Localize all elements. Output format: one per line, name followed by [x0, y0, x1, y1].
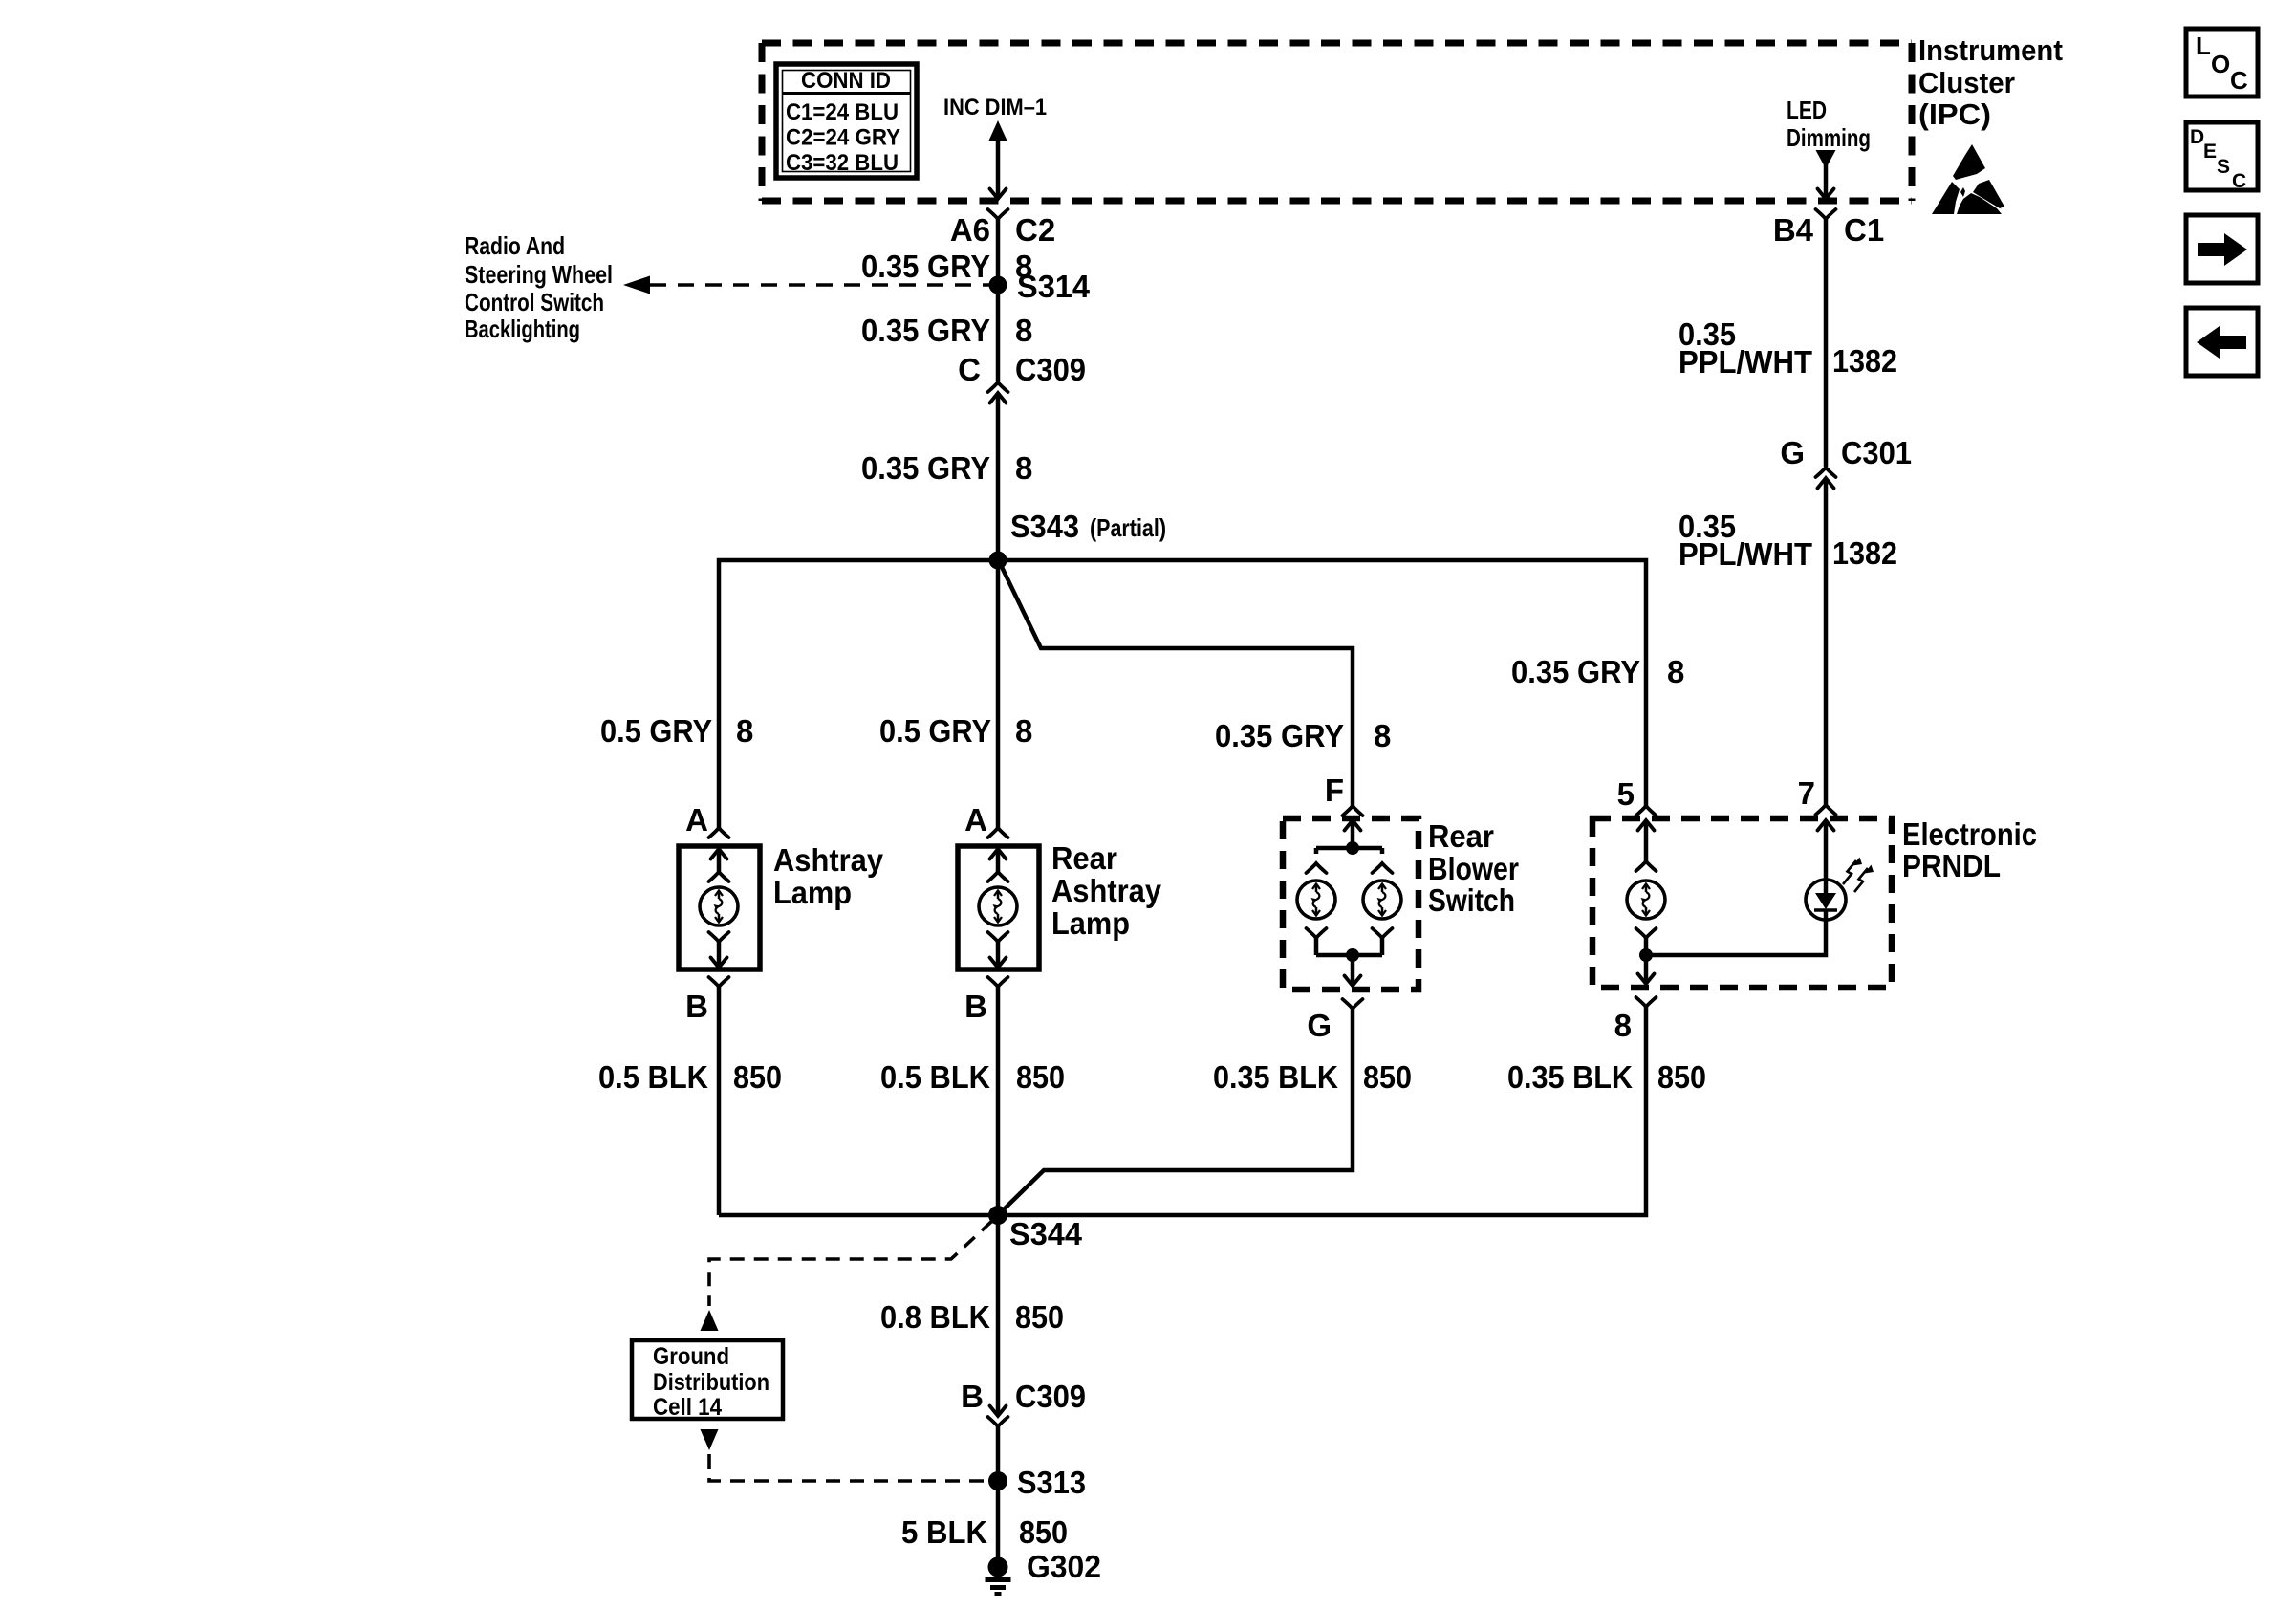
svg-text:PPL/WHT: PPL/WHT	[1679, 344, 1812, 380]
svg-text:850: 850	[1019, 1514, 1068, 1550]
svg-text:0.5 BLK: 0.5 BLK	[880, 1059, 990, 1095]
svg-text:L: L	[2196, 32, 2211, 60]
svg-text:C1=24 BLU: C1=24 BLU	[786, 99, 899, 125]
svg-text:C309: C309	[1015, 352, 1086, 387]
wire S313 down to G302	[996, 1481, 1001, 1568]
svg-text:Lamp: Lamp	[1051, 905, 1130, 941]
svg-text:1382: 1382	[1832, 535, 1897, 571]
pin F arrow inside	[1345, 820, 1361, 831]
svg-text:Lamp: Lamp	[773, 875, 852, 910]
svg-text:0.5 GRY: 0.5 GRY	[879, 713, 991, 749]
svg-text:850: 850	[1016, 1059, 1065, 1095]
svg-text:S: S	[2217, 156, 2230, 178]
svg-text:C3=32 BLU: C3=32 BLU	[786, 150, 899, 176]
svg-text:E: E	[2203, 141, 2217, 163]
LED light rays	[1843, 860, 1868, 892]
svg-text:Distribution: Distribution	[653, 1369, 769, 1396]
svg-text:Ashtray: Ashtray	[773, 842, 884, 878]
solid up triangle	[701, 1310, 719, 1331]
svg-text:B: B	[961, 1379, 984, 1414]
svg-text:F: F	[1325, 772, 1344, 808]
svg-text:(IPC): (IPC)	[1918, 98, 1991, 131]
wire down to S313	[996, 1426, 1001, 1481]
svg-text:850: 850	[733, 1059, 782, 1095]
svg-text:Electronic: Electronic	[1902, 816, 2037, 852]
svg-text:Dimming: Dimming	[1787, 123, 1871, 152]
dashed wire to radio backlighting	[650, 283, 994, 287]
svg-text:A: A	[964, 802, 987, 838]
wire S344 down to C309	[996, 1215, 1001, 1414]
svg-text:Rear: Rear	[1428, 818, 1494, 854]
svg-text:Control Switch: Control Switch	[465, 288, 604, 316]
wire: S343 right branch to PRNDL pin 5	[998, 560, 1646, 806]
svg-text:8: 8	[1667, 654, 1684, 689]
Rear Ashtray Lamp bulb	[979, 887, 1017, 925]
svg-text:8: 8	[1374, 718, 1391, 753]
svg-text:PRNDL: PRNDL	[1902, 848, 2001, 883]
wire ashtray B to S344	[719, 1213, 998, 1218]
right bulb of switch	[1373, 863, 1393, 873]
wire stub with solid up arrow into IPC	[996, 136, 1001, 196]
svg-text:D: D	[2190, 126, 2204, 148]
connector chevron at IPC edge	[988, 209, 1008, 219]
inline connector C309 bottom	[990, 1406, 1007, 1417]
pin 5 arrow inside	[1638, 820, 1655, 831]
svg-text:Cluster: Cluster	[1918, 66, 2015, 99]
svg-text:A: A	[685, 802, 708, 838]
svg-text:Instrument: Instrument	[1918, 33, 2063, 67]
svg-text:(Partial): (Partial)	[1090, 513, 1166, 542]
pin G chevron below	[1343, 999, 1363, 1009]
DESC button	[2186, 122, 2258, 192]
svg-text:8: 8	[1015, 450, 1032, 486]
svg-text:8: 8	[736, 713, 753, 749]
svg-text:0.35 GRY: 0.35 GRY	[861, 450, 990, 486]
svg-text:C2: C2	[1015, 212, 1055, 248]
svg-text:0.35 GRY: 0.35 GRY	[1511, 654, 1640, 689]
svg-text:0.8 BLK: 0.8 BLK	[880, 1299, 990, 1335]
wire stub with solid down arrow	[1816, 150, 1836, 169]
junction dot	[1639, 948, 1653, 962]
svg-text:Cell 14: Cell 14	[653, 1394, 722, 1421]
svg-text:0.35 BLK: 0.35 BLK	[1213, 1059, 1338, 1095]
svg-text:C2=24 GRY: C2=24 GRY	[786, 125, 900, 151]
wire: S343 diagonal branch to rear blower switch	[1001, 565, 1353, 806]
ESD sensitivity symbol	[1932, 144, 2004, 214]
svg-text:5 BLK: 5 BLK	[901, 1514, 987, 1550]
svg-text:C301: C301	[1841, 435, 1912, 470]
LED indicator	[1806, 880, 1846, 920]
svg-text:C: C	[2232, 170, 2246, 192]
Ashtray Lamp box	[679, 846, 760, 969]
svg-text:C: C	[958, 352, 981, 387]
Instrument Cluster (IPC) dashed box	[762, 40, 1912, 47]
svg-text:8: 8	[1015, 713, 1032, 749]
svg-text:850: 850	[1363, 1059, 1412, 1095]
wire down to PRNDL pin 7	[1824, 478, 1829, 805]
PRNDL bulb	[1627, 881, 1665, 919]
wire down to C309	[996, 219, 1001, 381]
svg-text:Steering Wheel: Steering Wheel	[465, 260, 613, 289]
splice S314	[989, 276, 1007, 294]
svg-text:8: 8	[1614, 1008, 1632, 1043]
forward arrow button	[2186, 215, 2258, 283]
wire Ashtray Lamp pin B down to S344	[717, 987, 722, 1215]
svg-text:850: 850	[1657, 1059, 1706, 1095]
wire: S343 left branch to ashtray lamp	[719, 560, 998, 828]
svg-text:B: B	[685, 989, 708, 1024]
dashed link S344 to ground distribution cell	[709, 1221, 992, 1306]
CONN ID table	[776, 64, 917, 178]
svg-text:0.35 GRY: 0.35 GRY	[861, 313, 990, 348]
svg-text:CONN ID: CONN ID	[801, 68, 891, 94]
wire: S343 down to rear ashtray lamp	[996, 560, 1001, 828]
svg-text:LED: LED	[1787, 96, 1827, 124]
svg-text:S344: S344	[1009, 1216, 1083, 1251]
dashed link to S313	[709, 1454, 986, 1481]
svg-text:C309: C309	[1015, 1379, 1086, 1414]
svg-text:PPL/WHT: PPL/WHT	[1679, 536, 1812, 572]
svg-text:B4: B4	[1773, 212, 1814, 248]
svg-text:Backlighting: Backlighting	[465, 315, 580, 343]
svg-text:S343: S343	[1010, 509, 1079, 544]
wire down to S343	[996, 393, 1001, 560]
svg-text:Ground: Ground	[653, 1343, 729, 1370]
svg-text:850: 850	[1015, 1299, 1064, 1335]
inline connector C309	[988, 382, 1008, 392]
wire Rear Ashtray Lamp pin B down to S344	[996, 987, 1001, 1215]
svg-text:Blower: Blower	[1428, 851, 1519, 886]
svg-text:O: O	[2211, 50, 2230, 78]
internal wire lamp junction to LED	[1646, 920, 1826, 955]
Ground Distribution Cell 14 box	[632, 1340, 783, 1419]
junction dot	[1346, 841, 1359, 855]
Rear Ashtray Lamp: pin B chevron	[988, 977, 1008, 987]
svg-text:S314: S314	[1017, 269, 1091, 304]
splice S343	[989, 552, 1007, 570]
svg-text:Radio And: Radio And	[465, 231, 565, 260]
svg-text:Rear: Rear	[1051, 840, 1117, 876]
svg-text:S313: S313	[1017, 1465, 1086, 1500]
wire down to C301	[1824, 219, 1829, 467]
svg-text:0.35 GRY: 0.35 GRY	[861, 249, 990, 284]
inline connector C301	[1816, 468, 1836, 477]
svg-text:Switch: Switch	[1428, 882, 1515, 918]
left bulb of switch	[1307, 863, 1327, 873]
splice S313	[988, 1471, 1007, 1490]
svg-text:C1: C1	[1844, 212, 1884, 248]
svg-text:1382: 1382	[1832, 343, 1897, 379]
Electronic PRNDL dashed box	[1592, 818, 1892, 988]
svg-text:G302: G302	[1027, 1549, 1101, 1584]
back arrow button	[2186, 308, 2258, 376]
svg-text:0.35 GRY: 0.35 GRY	[1215, 718, 1344, 753]
svg-text:G: G	[1307, 1008, 1332, 1043]
pin 7 arrow inside	[1818, 820, 1834, 831]
Rear Blower Switch dashed box	[1283, 818, 1419, 990]
svg-text:Ashtray: Ashtray	[1051, 873, 1162, 908]
pin 8 chevron below	[1636, 997, 1657, 1007]
svg-text:5: 5	[1617, 776, 1635, 812]
Rear Ashtray Lamp box	[958, 846, 1039, 969]
svg-text:0.35 BLK: 0.35 BLK	[1507, 1059, 1633, 1095]
svg-text:B: B	[964, 989, 987, 1024]
svg-text:A6: A6	[950, 212, 990, 248]
split bar to both bulbs	[1316, 848, 1382, 854]
svg-text:0.5 GRY: 0.5 GRY	[600, 713, 712, 749]
svg-text:INC DIM–1: INC DIM–1	[943, 95, 1047, 120]
ground G302	[988, 1557, 1008, 1577]
svg-text:7: 7	[1798, 775, 1815, 811]
svg-text:G: G	[1780, 435, 1805, 470]
wire pin G down then left to S344	[1001, 1009, 1353, 1212]
connector chevron at IPC edge	[1816, 209, 1836, 219]
wire pin 8 down then left to S344	[1002, 1007, 1646, 1215]
LOC button	[2186, 29, 2258, 97]
svg-text:0.5 BLK: 0.5 BLK	[598, 1059, 708, 1095]
svg-text:C: C	[2230, 66, 2248, 95]
splice S344	[988, 1206, 1007, 1225]
Ashtray Lamp: pin B chevron	[709, 977, 729, 987]
solid down triangle	[701, 1429, 719, 1450]
merge bar and junction	[1316, 953, 1382, 958]
svg-text:8: 8	[1015, 313, 1032, 348]
Ashtray Lamp bulb	[700, 887, 738, 925]
